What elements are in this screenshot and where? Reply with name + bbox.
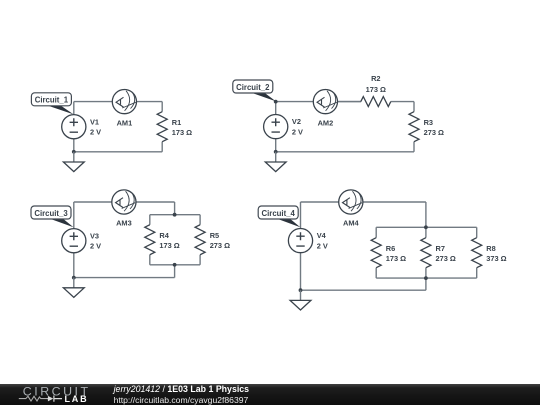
svg-text:R3: R3 xyxy=(424,118,433,127)
svg-text:R8: R8 xyxy=(486,244,495,253)
ground xyxy=(265,152,286,172)
wire: drop to parallel top rail xyxy=(425,202,427,227)
wire: V1 negative lead xyxy=(73,139,75,152)
junction: parallel top c4 xyxy=(424,225,428,229)
svg-text:373 Ω: 373 Ω xyxy=(486,254,506,263)
svg-text:Circuit_2: Circuit_2 xyxy=(236,83,270,92)
svg-text:273 Ω: 273 Ω xyxy=(424,128,444,137)
wire: parallel bottom rail c4 xyxy=(376,277,477,279)
resistor R7 xyxy=(421,227,431,278)
wire: V2 positive lead xyxy=(275,102,277,115)
node label Circuit_1 xyxy=(31,93,73,115)
wire: AM2 to R2 xyxy=(338,101,362,103)
wire: parallel bottom rail c3 xyxy=(150,264,200,266)
ground xyxy=(63,278,84,298)
wire: bottom rail circuit 1 xyxy=(74,151,162,153)
svg-text:R4: R4 xyxy=(159,231,169,240)
svg-text:273 Ω: 273 Ω xyxy=(210,241,230,250)
svg-text:173 Ω: 173 Ω xyxy=(172,128,192,137)
svg-text:AM4: AM4 xyxy=(343,219,359,228)
wire: AM3 to parallel bank xyxy=(136,201,175,203)
wire: bank to bottom wire xyxy=(174,265,176,278)
svg-text:2 V: 2 V xyxy=(90,127,101,136)
wire: bottom rail circuit 3 xyxy=(74,277,175,279)
wire: drop to parallel top rail xyxy=(174,202,176,215)
svg-text:V2: V2 xyxy=(292,117,301,126)
svg-text:R2: R2 xyxy=(371,74,380,83)
svg-text:R1: R1 xyxy=(172,118,181,127)
resistor R6 xyxy=(371,227,381,278)
wire: bottom rail circuit 2 xyxy=(276,151,414,153)
svg-text:2 V: 2 V xyxy=(90,241,101,250)
wire: V4 negative lead xyxy=(300,253,302,291)
wire: bank to bottom wire xyxy=(425,278,427,290)
resistor R5 xyxy=(195,215,205,265)
wire: V3 top to AM3 xyxy=(74,201,112,203)
voltage source V4 xyxy=(288,229,312,253)
wire: V2 negative lead xyxy=(275,139,277,152)
ammeter AM4 xyxy=(339,190,363,214)
svg-text:AM1: AM1 xyxy=(117,118,133,127)
wire: AM4 to parallel bank xyxy=(363,201,426,203)
ammeter AM1 xyxy=(112,90,136,114)
svg-text:173 Ω: 173 Ω xyxy=(366,85,386,94)
resistor R3 xyxy=(409,102,419,152)
svg-text:AM2: AM2 xyxy=(318,118,334,127)
junction: parallel bottom c4 xyxy=(424,276,428,280)
footer bar xyxy=(0,384,540,405)
svg-text:273 Ω: 273 Ω xyxy=(436,254,456,263)
svg-text:LAB: LAB xyxy=(65,394,89,404)
ammeter AM3 xyxy=(112,190,136,214)
node label Circuit_4 xyxy=(258,206,300,227)
svg-text:V4: V4 xyxy=(317,231,327,240)
wire: V2 top to AM2 xyxy=(276,101,314,103)
ammeter AM2 xyxy=(313,90,337,114)
wire: V4 top to AM4 xyxy=(301,201,339,203)
junction: V3 neg / ground node xyxy=(72,276,76,280)
ground xyxy=(290,290,311,310)
svg-text:R6: R6 xyxy=(386,244,395,253)
footer credit text xyxy=(114,384,249,394)
svg-text:Circuit_1: Circuit_1 xyxy=(35,96,69,105)
junction: V4 neg / ground node xyxy=(299,288,303,292)
voltage source V3 xyxy=(62,229,86,253)
junction: V1 neg / ground node xyxy=(72,150,76,154)
resistor R2 xyxy=(338,97,414,107)
svg-text:R5: R5 xyxy=(210,231,219,240)
node label Circuit_3 xyxy=(31,206,74,227)
wire: V4 positive lead xyxy=(300,202,302,229)
wire: V1 positive lead xyxy=(73,102,75,115)
voltage source V2 xyxy=(264,115,288,139)
resistor R4 xyxy=(145,215,155,265)
svg-text:2 V: 2 V xyxy=(292,127,303,136)
svg-text:AM3: AM3 xyxy=(116,219,132,228)
resistor R1 xyxy=(157,102,167,152)
wire: V1 top to AM1 xyxy=(74,101,113,103)
junction: parallel top c3 xyxy=(173,213,177,217)
svg-text:173 Ω: 173 Ω xyxy=(159,241,179,250)
wire xyxy=(413,101,415,103)
svg-text:173 Ω: 173 Ω xyxy=(386,254,406,263)
svg-text:2 V: 2 V xyxy=(317,241,328,250)
ground xyxy=(63,152,84,172)
CircuitLab logo xyxy=(0,384,100,405)
wire: R2 to R3 corner xyxy=(413,101,415,103)
wire: bottom rail circuit 4 xyxy=(301,289,426,291)
junction: parallel bottom c3 xyxy=(173,263,177,267)
svg-text:Circuit_4: Circuit_4 xyxy=(262,209,296,218)
wire: parallel top rail c3 xyxy=(150,214,200,216)
wire: AM1 to R1 top xyxy=(137,101,163,103)
wire: V3 positive lead xyxy=(73,202,75,229)
svg-text:V1: V1 xyxy=(90,117,99,126)
logo resistor+diode glyph xyxy=(19,396,48,401)
wire: parallel top rail c4 xyxy=(376,226,477,228)
voltage source V1 xyxy=(62,115,86,139)
svg-text:Circuit_3: Circuit_3 xyxy=(34,209,68,218)
junction: V2 top node xyxy=(274,100,278,104)
wire: V3 negative lead xyxy=(73,253,75,278)
svg-text:V3: V3 xyxy=(90,231,99,240)
node label Circuit_2 xyxy=(233,80,276,101)
resistor R8 xyxy=(472,227,482,278)
svg-text:R7: R7 xyxy=(436,244,445,253)
junction: V2 neg / ground node xyxy=(274,150,278,154)
